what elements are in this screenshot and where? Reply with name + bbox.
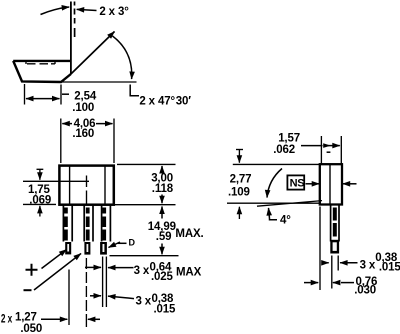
2.77 lower arrow (238, 207, 240, 219)
lead 1 tip (65, 242, 71, 254)
svg-text:.160: .160 (72, 128, 94, 140)
body side rectangle (320, 164, 342, 204)
2.77 upper arrow (236, 150, 243, 163)
4.06 dimension arrows (62, 123, 72, 125)
svg-text:.062: .062 (273, 144, 295, 156)
svg-text:.59: .59 (156, 231, 172, 243)
svg-text:.015: .015 (154, 304, 177, 316)
svg-text:2 x 47° 30′: 2 x 47° 30′ (139, 95, 191, 107)
svg-text:.030: .030 (354, 284, 376, 296)
lead tip plane line (110, 255, 179, 257)
NS arrow to body (306, 183, 320, 185)
horizontal centerline (23, 180, 89, 182)
2.77 top reference line (body top extended left) (233, 163, 320, 165)
3.00 top extension line (117, 163, 176, 165)
3.00 dimension arrows (161, 166, 163, 171)
recess dashed line (27, 63, 55, 65)
2.54 extension lines (25, 84, 62, 105)
lead (side view) outline (331, 205, 339, 242)
svg-text:.100: .100 (72, 102, 94, 114)
svg-text:2 x 3°: 2 x 3° (99, 6, 129, 18)
body face extension line down (319, 207, 321, 291)
4.06 extension lines (61, 119, 114, 164)
0.76 dimension arrows (304, 282, 318, 284)
body internal line right (104, 166, 106, 204)
svg-text:.015: .015 (379, 262, 400, 274)
lead 1 outline (63, 205, 72, 242)
body internal line (329, 165, 331, 205)
D label leader (118, 242, 127, 244)
14.99 dimension arrows (161, 207, 163, 219)
body front rectangle (59, 166, 113, 205)
recess ticks on body top (26, 61, 55, 64)
seating plane line (227, 202, 321, 204)
svg-text:.069: .069 (29, 195, 51, 207)
lead (side view, bent vertical) (70, 2, 72, 75)
1.75 lower arrow (39, 206, 41, 217)
svg-text:.050: .050 (20, 323, 42, 334)
lead2 center dashed extension line (85, 258, 87, 327)
NS logo box (287, 175, 304, 189)
lead 3 tip (100, 242, 107, 255)
minus symbol (24, 289, 32, 291)
1.57 dimension arrows (301, 145, 323, 147)
3 deg leader from label (77, 9, 97, 10)
1.75 upper arrow (37, 169, 44, 180)
svg-text:2,54: 2,54 (74, 91, 97, 103)
lead 2 outline (84, 205, 93, 242)
1.75 bottom reference line (body bottom extended left) (23, 203, 56, 205)
svg-text:4°: 4° (280, 215, 291, 227)
horizontal reference line for 47 deg (61, 81, 137, 83)
lead 3 outline (102, 205, 111, 242)
svg-text:.118: .118 (152, 183, 174, 195)
lead3 edge extension lines (103, 257, 107, 308)
47 deg dimension arc (113, 36, 132, 79)
lead 1 inner bar (64, 208, 68, 241)
4 deg arc (267, 169, 282, 198)
4 deg leader arrow (269, 208, 270, 219)
2.54 leader dash (62, 93, 69, 95)
3 deg arc left of lead (41, 7, 70, 15)
47 deg bent-lead line (71, 32, 115, 75)
lead 2 tip (84, 242, 90, 255)
vertical centerline (dash-dot) upper (86, 176, 88, 205)
lead (side view) inner bar (333, 208, 337, 237)
body side profile (13, 61, 71, 82)
leader elbow to 47 deg label (130, 85, 139, 96)
svg-text:.109: .109 (228, 187, 250, 199)
2.54 dimension arrows (26, 98, 43, 100)
0.76 leader (341, 282, 354, 284)
0.64 dimension arrows (85, 266, 101, 268)
svg-text:.025: .025 (151, 271, 174, 283)
1.57 extension lines (321, 136, 341, 164)
svg-text:MAX: MAX (176, 267, 202, 279)
lead (side view) tip (330, 240, 339, 254)
svg-text:1,57: 1,57 (278, 132, 300, 144)
1.27 dimension arrows (41, 318, 67, 320)
plus leader (42, 250, 67, 269)
svg-text:MAX.: MAX. (175, 228, 203, 240)
4 deg sloped line (257, 201, 322, 207)
svg-text:D: D (129, 238, 136, 248)
lead 2 inner bar (86, 208, 90, 241)
right arrow to body face (343, 183, 357, 185)
lead edge extension lines down (332, 256, 338, 289)
svg-text:1,27: 1,27 (15, 312, 37, 324)
lead1 center extension line (68, 270, 70, 326)
0.38 dimension arrows (side) (322, 262, 329, 264)
plus symbol (26, 264, 38, 276)
3.00/14.99 mid extension line (body bottom extended right) (114, 204, 176, 206)
svg-text:2,77: 2,77 (230, 174, 252, 186)
svg-text:3 x: 3 x (134, 265, 150, 277)
svg-text:NS: NS (290, 178, 305, 190)
lead 3 inner bar (102, 208, 106, 241)
svg-text:3 x: 3 x (136, 296, 152, 308)
svg-text:3 x: 3 x (360, 259, 376, 271)
0.38 dimension arrows (front) (90, 295, 101, 297)
body internal line left (69, 166, 71, 204)
svg-text:2 x: 2 x (1, 313, 13, 325)
minus leader (34, 254, 81, 291)
